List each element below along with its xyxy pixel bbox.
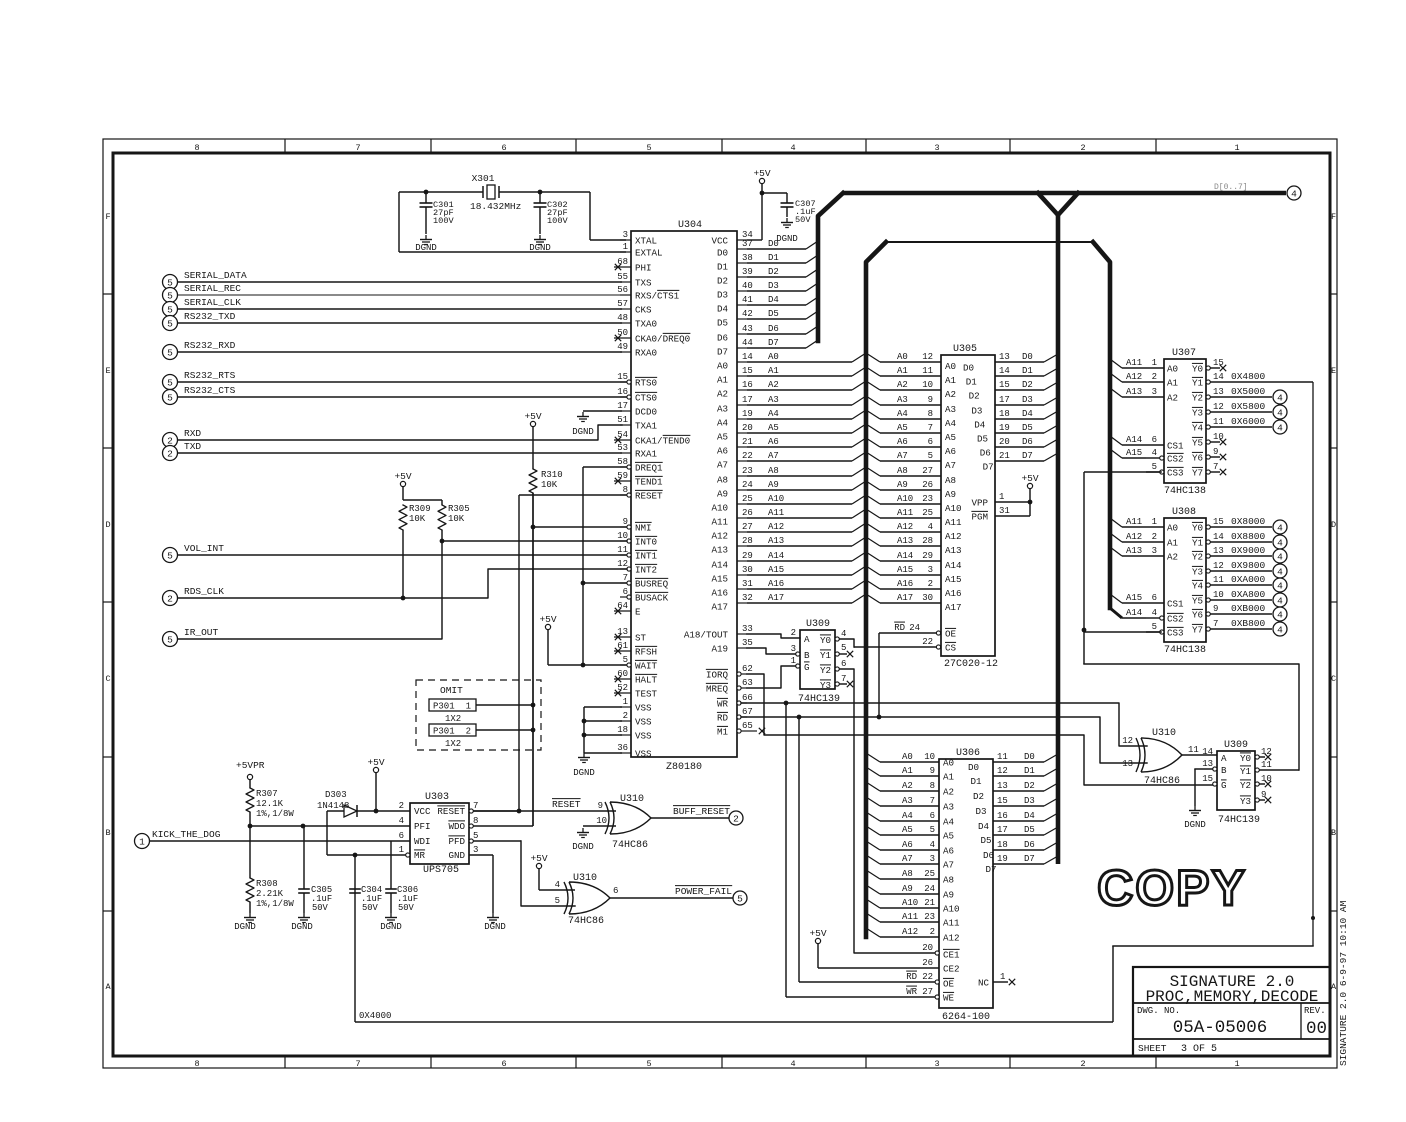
svg-text:A2: A2 xyxy=(1167,552,1178,563)
svg-text:A11: A11 xyxy=(945,517,962,528)
svg-text:OE: OE xyxy=(945,629,957,640)
svg-text:31: 31 xyxy=(999,506,1010,516)
svg-text:0XA800: 0XA800 xyxy=(1231,589,1266,600)
svg-text:65: 65 xyxy=(742,721,753,731)
svg-text:A3: A3 xyxy=(717,404,728,415)
svg-text:A6: A6 xyxy=(902,840,913,850)
svg-text:56: 56 xyxy=(617,285,628,295)
svg-text:4: 4 xyxy=(1277,407,1283,418)
svg-text:RS232_RTS: RS232_RTS xyxy=(184,370,236,381)
svg-text:ST: ST xyxy=(635,633,647,644)
svg-text:7: 7 xyxy=(355,1059,360,1069)
svg-text:U305: U305 xyxy=(953,344,977,355)
svg-text:Y1: Y1 xyxy=(1192,378,1204,389)
svg-text:74HC138: 74HC138 xyxy=(1164,645,1206,656)
svg-text:VPP: VPP xyxy=(971,498,988,509)
svg-text:DREQ1: DREQ1 xyxy=(635,463,663,474)
svg-text:20: 20 xyxy=(922,943,933,953)
svg-text:16: 16 xyxy=(997,811,1008,821)
svg-text:M1: M1 xyxy=(717,727,729,738)
svg-text:1%,1/8W: 1%,1/8W xyxy=(256,899,294,909)
svg-text:INT0: INT0 xyxy=(635,537,657,548)
svg-text:14: 14 xyxy=(999,366,1010,376)
svg-text:4: 4 xyxy=(555,880,560,890)
svg-text:D4: D4 xyxy=(974,420,986,431)
svg-text:4: 4 xyxy=(1277,537,1283,548)
svg-text:Y5: Y5 xyxy=(1192,596,1203,607)
svg-text:3: 3 xyxy=(473,845,478,855)
svg-text:24: 24 xyxy=(742,480,753,490)
svg-text:WDI: WDI xyxy=(414,836,431,847)
svg-text:RESET: RESET xyxy=(437,806,465,817)
svg-text:4: 4 xyxy=(1277,609,1283,620)
svg-text:24: 24 xyxy=(924,884,935,894)
svg-text:4: 4 xyxy=(930,840,935,850)
svg-text:A3: A3 xyxy=(943,802,954,813)
svg-text:A2: A2 xyxy=(945,389,956,400)
svg-text:A4: A4 xyxy=(717,418,729,429)
svg-text:13: 13 xyxy=(1213,387,1224,397)
svg-text:17: 17 xyxy=(742,395,753,405)
svg-text:13: 13 xyxy=(997,781,1008,791)
svg-text:3 OF 5: 3 OF 5 xyxy=(1181,1044,1217,1055)
svg-text:27: 27 xyxy=(922,987,933,997)
svg-text:A14: A14 xyxy=(1126,435,1142,445)
svg-text:2: 2 xyxy=(466,727,471,737)
svg-text:DGND: DGND xyxy=(1184,820,1206,830)
svg-text:1: 1 xyxy=(1234,143,1239,153)
svg-text:RFSH: RFSH xyxy=(635,647,657,658)
svg-text:A10: A10 xyxy=(945,503,962,514)
svg-text:MREQ: MREQ xyxy=(706,684,729,695)
svg-text:3: 3 xyxy=(934,143,939,153)
svg-text:A0: A0 xyxy=(1167,364,1178,375)
svg-text:R305: R305 xyxy=(448,504,470,514)
svg-text:7: 7 xyxy=(1213,619,1218,629)
svg-text:Y0: Y0 xyxy=(1192,364,1203,375)
svg-text:4: 4 xyxy=(1277,422,1283,433)
svg-text:A3: A3 xyxy=(897,395,908,405)
svg-text:A9: A9 xyxy=(717,489,728,500)
svg-text:8: 8 xyxy=(473,816,478,826)
svg-text:57: 57 xyxy=(617,299,628,309)
svg-text:2.21K: 2.21K xyxy=(256,889,284,899)
svg-text:A5: A5 xyxy=(768,423,779,433)
svg-text:VSS: VSS xyxy=(635,703,652,714)
svg-text:0X5800: 0X5800 xyxy=(1231,401,1266,412)
svg-text:Y2: Y2 xyxy=(1192,552,1203,563)
svg-text:4: 4 xyxy=(1152,448,1157,458)
svg-text:4: 4 xyxy=(399,816,404,826)
svg-text:+5V: +5V xyxy=(524,411,541,422)
svg-text:D4: D4 xyxy=(717,304,729,315)
svg-text:SERIAL_CLK: SERIAL_CLK xyxy=(184,297,241,308)
svg-text:Y7: Y7 xyxy=(1192,625,1203,636)
svg-text:CS3: CS3 xyxy=(1167,468,1184,479)
svg-text:A12: A12 xyxy=(902,927,918,937)
svg-text:RD: RD xyxy=(906,972,917,982)
svg-text:D7: D7 xyxy=(983,462,994,473)
svg-text:6: 6 xyxy=(841,659,846,669)
svg-text:2: 2 xyxy=(930,927,935,937)
svg-text:WDO: WDO xyxy=(448,821,465,832)
svg-text:35: 35 xyxy=(742,638,753,648)
svg-text:A: A xyxy=(1331,982,1337,992)
svg-text:12: 12 xyxy=(1122,736,1133,746)
svg-text:5: 5 xyxy=(646,143,651,153)
svg-text:9: 9 xyxy=(1213,447,1218,457)
svg-text:DGND: DGND xyxy=(573,768,595,778)
svg-text:7: 7 xyxy=(473,801,478,811)
svg-text:11: 11 xyxy=(997,752,1008,762)
svg-text:VSS: VSS xyxy=(635,717,652,728)
svg-text:26: 26 xyxy=(922,958,933,968)
svg-text:22: 22 xyxy=(742,451,753,461)
svg-text:A2: A2 xyxy=(1167,393,1178,404)
svg-text:D0: D0 xyxy=(968,762,979,773)
svg-text:5: 5 xyxy=(930,825,935,835)
svg-text:U308: U308 xyxy=(1172,507,1196,518)
svg-text:RXA1: RXA1 xyxy=(635,449,658,460)
svg-text:0X9800: 0X9800 xyxy=(1231,560,1266,571)
svg-text:BUSACK: BUSACK xyxy=(635,593,669,604)
svg-text:0XA000: 0XA000 xyxy=(1231,574,1266,585)
svg-text:A12: A12 xyxy=(711,531,728,542)
svg-text:+5V: +5V xyxy=(809,928,826,939)
svg-text:A14: A14 xyxy=(945,560,962,571)
svg-text:11: 11 xyxy=(1188,745,1199,755)
svg-text:25: 25 xyxy=(742,494,753,504)
svg-text:9: 9 xyxy=(598,801,603,811)
svg-text:WR: WR xyxy=(717,699,729,710)
svg-text:PFD: PFD xyxy=(448,836,465,847)
svg-text:TXA0: TXA0 xyxy=(635,319,657,330)
svg-text:Y0: Y0 xyxy=(1240,753,1251,764)
svg-text:A13: A13 xyxy=(897,536,913,546)
svg-text:A13: A13 xyxy=(711,545,728,556)
svg-text:Z80180: Z80180 xyxy=(666,762,702,773)
svg-text:10: 10 xyxy=(596,816,607,826)
svg-text:A12: A12 xyxy=(897,522,913,532)
svg-text:F: F xyxy=(1331,212,1336,222)
svg-text:1: 1 xyxy=(399,845,404,855)
svg-text:D6: D6 xyxy=(1024,840,1035,850)
svg-text:RESET: RESET xyxy=(635,491,663,502)
svg-text:A0: A0 xyxy=(1167,523,1178,534)
svg-text:SERIAL_DATA: SERIAL_DATA xyxy=(184,270,247,281)
svg-text:+5V: +5V xyxy=(394,471,411,482)
svg-text:A1: A1 xyxy=(943,772,955,783)
svg-text:4: 4 xyxy=(1291,188,1297,199)
svg-text:R307: R307 xyxy=(256,789,278,799)
svg-text:8: 8 xyxy=(194,1059,199,1069)
svg-text:G: G xyxy=(1221,780,1227,791)
svg-text:A7: A7 xyxy=(768,451,779,461)
svg-text:6: 6 xyxy=(1152,435,1157,445)
svg-text:C: C xyxy=(1331,674,1336,684)
svg-text:A12: A12 xyxy=(945,531,962,542)
svg-text:B: B xyxy=(804,650,810,661)
svg-text:D3: D3 xyxy=(768,281,779,291)
svg-text:+5V: +5V xyxy=(539,614,556,625)
svg-text:A3: A3 xyxy=(945,404,956,415)
svg-text:51: 51 xyxy=(617,415,628,425)
svg-text:22: 22 xyxy=(922,637,933,647)
svg-text:1: 1 xyxy=(1234,1059,1239,1069)
svg-text:INT1: INT1 xyxy=(635,551,658,562)
svg-text:6: 6 xyxy=(928,437,933,447)
svg-text:U303: U303 xyxy=(425,792,449,803)
svg-text:RESET: RESET xyxy=(552,799,581,810)
svg-text:10K: 10K xyxy=(448,514,465,524)
svg-text:12: 12 xyxy=(997,766,1008,776)
svg-text:HALT: HALT xyxy=(635,675,658,686)
svg-text:X301: X301 xyxy=(472,173,495,184)
svg-text:A8: A8 xyxy=(717,475,728,486)
svg-text:D7: D7 xyxy=(986,864,997,875)
svg-text:1: 1 xyxy=(999,492,1004,502)
svg-text:A13: A13 xyxy=(1126,546,1142,556)
svg-text:A7: A7 xyxy=(945,460,956,471)
svg-text:0X8800: 0X8800 xyxy=(1231,531,1266,542)
svg-text:A2: A2 xyxy=(897,380,908,390)
svg-text:0X8000: 0X8000 xyxy=(1231,516,1266,527)
svg-text:TXS: TXS xyxy=(635,278,652,289)
svg-text:A0: A0 xyxy=(717,361,728,372)
svg-text:6: 6 xyxy=(399,831,404,841)
svg-text:DGND: DGND xyxy=(415,243,437,253)
svg-text:0X4800: 0X4800 xyxy=(1231,371,1266,382)
svg-text:4: 4 xyxy=(1277,551,1283,562)
svg-text:1%,1/8W: 1%,1/8W xyxy=(256,809,294,819)
svg-text:A12: A12 xyxy=(768,522,784,532)
svg-text:67: 67 xyxy=(742,707,753,717)
svg-text:D5: D5 xyxy=(717,318,728,329)
svg-text:A10: A10 xyxy=(897,494,913,504)
svg-text:Y2: Y2 xyxy=(820,665,831,676)
svg-text:A16: A16 xyxy=(897,579,913,589)
svg-text:CKA0/DREQ0: CKA0/DREQ0 xyxy=(635,334,690,345)
svg-text:5: 5 xyxy=(1152,622,1157,632)
svg-text:A11: A11 xyxy=(711,517,728,528)
svg-text:27: 27 xyxy=(922,466,933,476)
svg-text:A9: A9 xyxy=(897,480,908,490)
svg-text:3: 3 xyxy=(934,1059,939,1069)
svg-text:SHEET: SHEET xyxy=(1138,1043,1167,1054)
svg-text:2: 2 xyxy=(928,579,933,589)
svg-text:5: 5 xyxy=(737,893,743,904)
svg-text:A6: A6 xyxy=(717,446,728,457)
svg-text:15: 15 xyxy=(742,366,753,376)
svg-text:Y1: Y1 xyxy=(820,650,832,661)
svg-text:A9: A9 xyxy=(902,884,913,894)
svg-text:DCD0: DCD0 xyxy=(635,407,657,418)
svg-text:D3: D3 xyxy=(717,290,728,301)
svg-text:12: 12 xyxy=(922,352,933,362)
svg-text:A0: A0 xyxy=(897,352,908,362)
svg-text:RD: RD xyxy=(717,713,729,724)
svg-text:DGND: DGND xyxy=(484,922,506,932)
svg-text:E: E xyxy=(635,607,641,618)
svg-text:5: 5 xyxy=(167,304,173,315)
svg-text:13: 13 xyxy=(1122,759,1133,769)
svg-text:D1: D1 xyxy=(1024,766,1035,776)
svg-text:100V: 100V xyxy=(547,216,568,226)
svg-text:28: 28 xyxy=(742,536,753,546)
svg-text:A15: A15 xyxy=(1126,448,1142,458)
svg-text:15: 15 xyxy=(1202,774,1213,784)
svg-text:5: 5 xyxy=(167,550,173,561)
svg-text:8: 8 xyxy=(623,485,628,495)
svg-text:D7: D7 xyxy=(1022,451,1033,461)
svg-text:R309: R309 xyxy=(409,504,431,514)
svg-text:A8: A8 xyxy=(897,466,908,476)
svg-text:A8: A8 xyxy=(768,466,779,476)
svg-text:42: 42 xyxy=(742,309,753,319)
svg-text:15: 15 xyxy=(1213,517,1224,527)
svg-text:BUSREQ: BUSREQ xyxy=(635,579,669,590)
svg-text:A9: A9 xyxy=(943,890,954,901)
svg-text:U306: U306 xyxy=(956,748,980,759)
svg-text:62: 62 xyxy=(742,664,753,674)
svg-text:CE2: CE2 xyxy=(943,964,960,975)
svg-text:Y3: Y3 xyxy=(1192,408,1203,419)
svg-text:A1: A1 xyxy=(717,375,729,386)
svg-text:12: 12 xyxy=(1213,561,1224,571)
svg-text:0X5000: 0X5000 xyxy=(1231,386,1266,397)
svg-text:21: 21 xyxy=(999,451,1010,461)
svg-text:A2: A2 xyxy=(717,389,728,400)
svg-text:Y7: Y7 xyxy=(1192,468,1203,479)
svg-text:38: 38 xyxy=(742,253,753,263)
svg-text:12: 12 xyxy=(617,559,628,569)
svg-text:A12: A12 xyxy=(1126,532,1142,542)
svg-text:A9: A9 xyxy=(945,489,956,500)
svg-text:D5: D5 xyxy=(768,309,779,319)
svg-text:1: 1 xyxy=(139,836,145,847)
svg-text:0X4000: 0X4000 xyxy=(359,1011,391,1021)
svg-text:D2: D2 xyxy=(1022,380,1033,390)
svg-text:B: B xyxy=(1221,765,1227,776)
svg-text:0XB000: 0XB000 xyxy=(1231,603,1266,614)
svg-text:50V: 50V xyxy=(312,903,329,913)
svg-text:RDS_CLK: RDS_CLK xyxy=(184,586,224,597)
svg-text:0X9000: 0X9000 xyxy=(1231,545,1266,556)
svg-text:Y4: Y4 xyxy=(1192,423,1204,434)
svg-text:VCC: VCC xyxy=(414,806,431,817)
svg-text:19: 19 xyxy=(999,423,1010,433)
svg-text:E: E xyxy=(1331,366,1336,376)
svg-text:A19: A19 xyxy=(711,644,728,655)
svg-text:A7: A7 xyxy=(902,854,913,864)
svg-text:D: D xyxy=(1331,520,1336,530)
svg-text:4: 4 xyxy=(928,522,933,532)
svg-text:WAIT: WAIT xyxy=(635,661,658,672)
svg-text:10: 10 xyxy=(1213,590,1224,600)
svg-text:4: 4 xyxy=(790,1059,795,1069)
svg-text:22: 22 xyxy=(922,972,933,982)
svg-text:29: 29 xyxy=(742,551,753,561)
svg-text:11: 11 xyxy=(922,366,933,376)
svg-text:TXA1: TXA1 xyxy=(635,421,658,432)
svg-text:2: 2 xyxy=(623,711,628,721)
svg-text:17: 17 xyxy=(617,401,628,411)
svg-text:11: 11 xyxy=(617,545,628,555)
svg-text:A4: A4 xyxy=(945,418,957,429)
svg-text:A11: A11 xyxy=(902,912,918,922)
svg-text:A1: A1 xyxy=(768,366,779,376)
svg-text:DGND: DGND xyxy=(572,427,594,437)
svg-text:F: F xyxy=(105,212,110,222)
svg-text:A: A xyxy=(105,982,111,992)
svg-text:KICK_THE_DOG: KICK_THE_DOG xyxy=(152,829,221,840)
svg-text:A3: A3 xyxy=(768,395,779,405)
svg-text:15: 15 xyxy=(999,380,1010,390)
svg-text:A5: A5 xyxy=(717,432,728,443)
svg-text:A16: A16 xyxy=(711,588,728,599)
svg-text:A15: A15 xyxy=(897,565,913,575)
svg-text:A7: A7 xyxy=(943,860,954,871)
svg-text:44: 44 xyxy=(742,338,753,348)
svg-text:A0: A0 xyxy=(945,361,956,372)
svg-text:5: 5 xyxy=(623,655,628,665)
svg-text:UPS705: UPS705 xyxy=(423,865,459,876)
svg-text:2: 2 xyxy=(399,801,404,811)
svg-text:B: B xyxy=(1331,828,1336,838)
svg-text:23: 23 xyxy=(922,494,933,504)
svg-text:A8: A8 xyxy=(945,475,956,486)
svg-text:2: 2 xyxy=(791,628,796,638)
svg-text:A0: A0 xyxy=(768,352,779,362)
svg-text:00: 00 xyxy=(1306,1019,1327,1039)
svg-text:58: 58 xyxy=(617,457,628,467)
svg-text:D6: D6 xyxy=(980,448,991,459)
svg-text:B: B xyxy=(105,828,110,838)
svg-text:OMIT: OMIT xyxy=(440,685,463,696)
svg-text:Y2: Y2 xyxy=(1192,393,1203,404)
svg-text:10: 10 xyxy=(924,752,935,762)
svg-text:4: 4 xyxy=(790,143,795,153)
svg-text:RXA0: RXA0 xyxy=(635,348,657,359)
svg-text:A6: A6 xyxy=(768,437,779,447)
svg-text:12.1K: 12.1K xyxy=(256,799,284,809)
svg-text:A11: A11 xyxy=(943,918,960,929)
svg-text:19: 19 xyxy=(997,854,1008,864)
svg-text:D3: D3 xyxy=(1024,796,1035,806)
svg-text:43: 43 xyxy=(742,324,753,334)
svg-text:5: 5 xyxy=(167,392,173,403)
svg-text:5: 5 xyxy=(167,634,173,645)
svg-text:D6: D6 xyxy=(1022,437,1033,447)
svg-text:7: 7 xyxy=(1213,462,1218,472)
svg-text:74HC86: 74HC86 xyxy=(568,916,604,927)
svg-text:RS232_RXD: RS232_RXD xyxy=(184,340,236,351)
svg-text:1: 1 xyxy=(466,702,471,712)
svg-text:VCC: VCC xyxy=(711,236,728,247)
svg-text:13: 13 xyxy=(1213,546,1224,556)
svg-text:6: 6 xyxy=(501,1059,506,1069)
svg-text:U310: U310 xyxy=(573,873,597,884)
svg-text:74HC86: 74HC86 xyxy=(1144,776,1180,787)
svg-text:13: 13 xyxy=(1202,759,1213,769)
svg-text:8: 8 xyxy=(194,143,199,153)
svg-text:DWG. NO.: DWG. NO. xyxy=(1137,1006,1180,1016)
svg-text:RXS/CTS1: RXS/CTS1 xyxy=(635,291,680,302)
svg-text:2: 2 xyxy=(1152,372,1157,382)
svg-text:2: 2 xyxy=(167,448,173,459)
svg-text:RS232_CTS: RS232_CTS xyxy=(184,385,236,396)
svg-text:40: 40 xyxy=(742,281,753,291)
